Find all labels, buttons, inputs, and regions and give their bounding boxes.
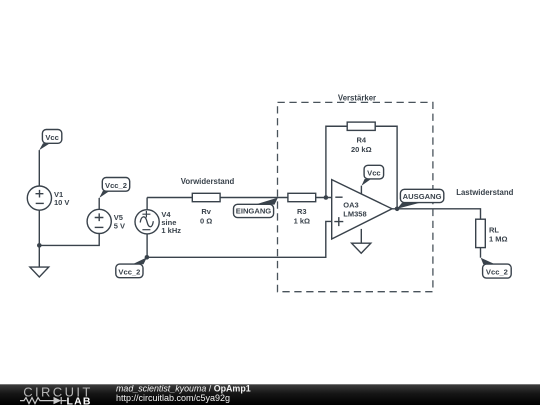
logo diode triangle — [54, 397, 62, 404]
junction dot output — [395, 207, 400, 212]
wire feedback left — [326, 126, 347, 197]
svg-text:OA3: OA3 — [343, 201, 358, 210]
svg-text:0 Ω: 0 Ω — [200, 217, 212, 226]
svg-text:Vcc: Vcc — [367, 169, 381, 178]
ground op-amp — [352, 243, 371, 253]
svg-text:Lastwiderstand: Lastwiderstand — [456, 188, 513, 197]
label R3 value — [294, 207, 310, 225]
svg-text:Vorwiderstand: Vorwiderstand — [181, 177, 235, 186]
wire op-amp gnd stub — [360, 229, 362, 243]
ground left — [30, 267, 49, 277]
junction dot feedback-R3 — [324, 195, 329, 200]
svg-text:Verstärker: Verstärker — [338, 93, 376, 102]
wire feedback right — [375, 126, 397, 209]
wire V5 top — [98, 198, 100, 210]
junction dot V4 bottom — [145, 255, 150, 260]
wire V1 bottom — [38, 210, 40, 245]
footer bar — [0, 384, 540, 405]
label R4 value — [351, 136, 372, 154]
flag AUSGANG — [397, 189, 444, 209]
voltage source V5 — [87, 209, 111, 233]
label RL value — [489, 225, 508, 243]
wire RL bottom — [480, 248, 482, 258]
wire Rv to R3 — [220, 197, 288, 199]
svg-text:mad_scientist_kyouma / OpAmp1: mad_scientist_kyouma / OpAmp1 — [116, 384, 251, 394]
svg-text:Rv: Rv — [201, 207, 211, 216]
wire V4 to Rv — [147, 197, 192, 199]
svg-text:5 V: 5 V — [114, 222, 125, 231]
flag Vcc_2 at V4 — [116, 257, 147, 277]
svg-text:R3: R3 — [297, 207, 307, 216]
label V4 value — [161, 210, 181, 235]
svg-text:http://circuitlab.com/c5ya92g: http://circuitlab.com/c5ya92g — [116, 393, 230, 403]
op-amp OA3 — [332, 180, 392, 239]
svg-text:1 kΩ: 1 kΩ — [294, 217, 310, 226]
wire junction to V5 — [39, 233, 99, 245]
wire V4 bottom — [146, 234, 148, 257]
svg-text:LAB: LAB — [67, 395, 92, 405]
label Rv value — [200, 207, 212, 225]
svg-text:Vcc_2: Vcc_2 — [118, 267, 140, 276]
op-amp minus input mark — [335, 196, 342, 198]
flag Vcc at op-amp — [362, 165, 384, 185]
wire bottom rail — [147, 221, 332, 257]
junction dot V1-V5 — [37, 243, 42, 248]
svg-text:Vcc: Vcc — [45, 133, 59, 142]
label V1 value — [54, 190, 69, 207]
wire op-amp vcc stub — [360, 186, 362, 194]
svg-text:Vcc_2: Vcc_2 — [486, 267, 508, 276]
svg-text:LM358: LM358 — [343, 209, 366, 218]
resistor Rv — [192, 193, 220, 201]
svg-text:1 MΩ: 1 MΩ — [489, 235, 508, 244]
flag EINGANG — [234, 198, 278, 218]
flag Vcc_2 at V5 — [99, 178, 129, 198]
wire R3 to op-amp — [316, 197, 332, 199]
svg-text:10 V: 10 V — [54, 198, 69, 207]
svg-text:R4: R4 — [357, 136, 367, 145]
verstaerker dashed box — [278, 102, 433, 291]
svg-text:RL: RL — [489, 225, 499, 234]
resistor R4 — [347, 122, 375, 130]
svg-text:EINGANG: EINGANG — [236, 207, 272, 216]
wire V4 top — [146, 198, 148, 210]
resistor R3 — [288, 193, 316, 201]
wire ground stub left — [38, 245, 40, 267]
svg-text:AUSGANG: AUSGANG — [403, 192, 442, 201]
wire V1 top — [38, 150, 40, 186]
wire output — [392, 209, 481, 219]
op-amp plus input mark — [334, 217, 343, 226]
logo resistor zigzag and diode — [20, 397, 67, 404]
flag Vcc at V1 — [39, 130, 62, 151]
svg-text:Vcc_2: Vcc_2 — [105, 181, 127, 190]
label OA3 LM358 — [343, 201, 366, 219]
svg-text:20 kΩ: 20 kΩ — [351, 145, 372, 154]
svg-text:1 kHz: 1 kHz — [161, 226, 181, 235]
resistor RL — [476, 219, 486, 247]
flag Vcc_2 at RL — [481, 258, 512, 278]
voltage source V1 — [27, 186, 51, 210]
label V5 value — [114, 213, 125, 230]
voltage source V4 sine — [135, 210, 159, 234]
